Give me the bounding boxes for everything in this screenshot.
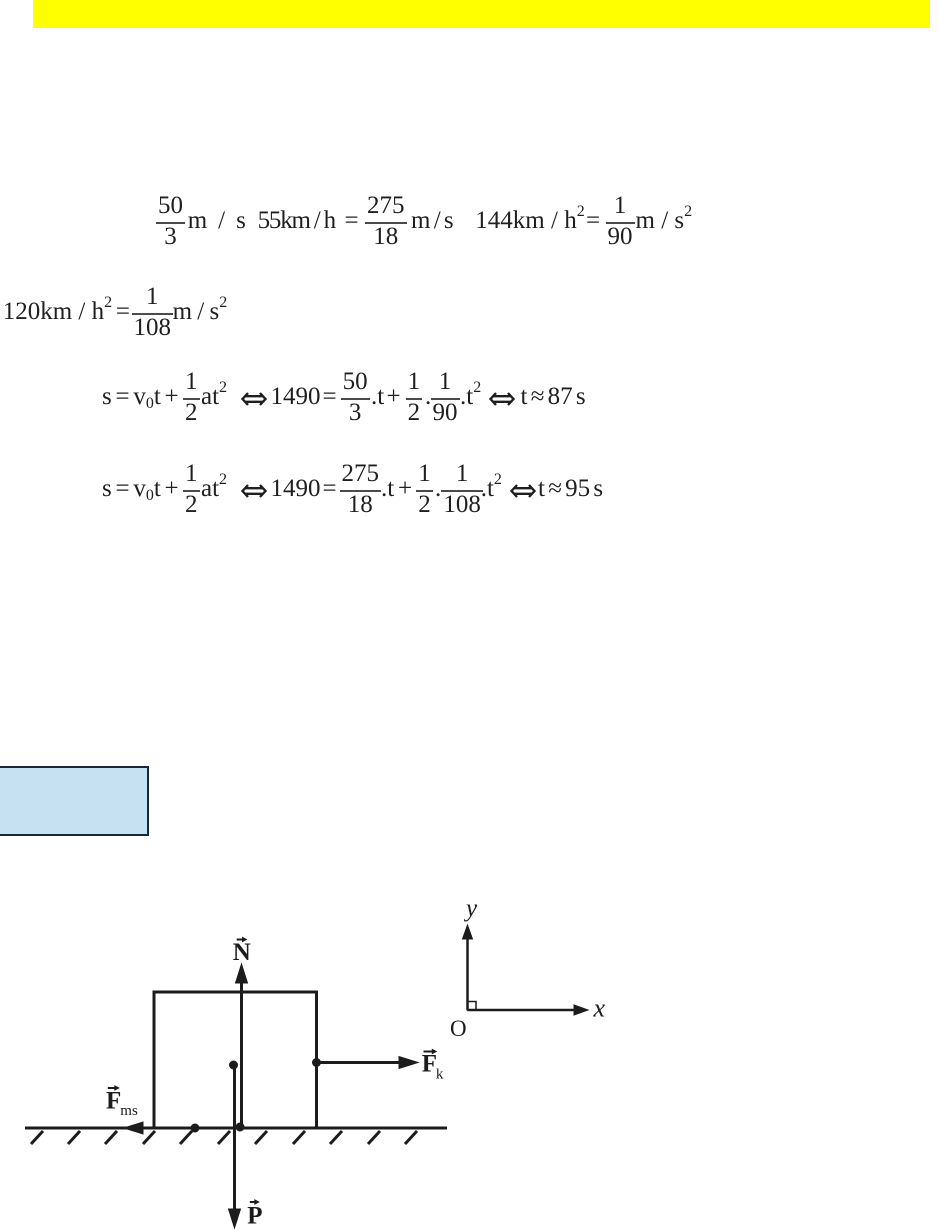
ground hatching [31, 1131, 417, 1144]
force diagram [0, 860, 939, 1231]
x axis [468, 1009, 576, 1012]
coordinate axes [463, 925, 589, 1015]
vector N (normal force) [236, 964, 248, 1127]
svg-text:k: k [436, 1067, 444, 1083]
vector Fk (applied force) [317, 1057, 419, 1069]
ground line [25, 1127, 447, 1130]
dot at Fms origin on ground [191, 1124, 200, 1133]
dot at block center (P origin) [229, 1061, 238, 1070]
svg-text:F: F [422, 1051, 437, 1078]
svg-text:F: F [106, 1088, 121, 1115]
svg-text:x: x [593, 994, 606, 1023]
equation line 3 [102, 384, 179, 409]
vector P (weight) [229, 1065, 241, 1228]
svg-text:ms: ms [120, 1103, 138, 1119]
svg-text:N: N [233, 939, 251, 966]
equation line 1 [156, 192, 185, 249]
block (box on ground) [154, 992, 317, 1128]
equation line 4 [102, 476, 179, 501]
vector Fms (friction) [124, 1122, 195, 1134]
yellow highlight bar [33, 0, 930, 28]
right-angle marker at origin [468, 1002, 477, 1011]
light blue rectangle [0, 766, 149, 836]
svg-text:O: O [450, 1016, 467, 1041]
svg-text:P: P [247, 1203, 262, 1230]
y axis [466, 938, 469, 1010]
equation line 2 [3, 299, 112, 324]
dot at Fk origin on block right edge [312, 1058, 321, 1067]
svg-text:y: y [463, 895, 478, 922]
dot at N base on ground [236, 1123, 245, 1132]
label N [106, 895, 606, 1230]
